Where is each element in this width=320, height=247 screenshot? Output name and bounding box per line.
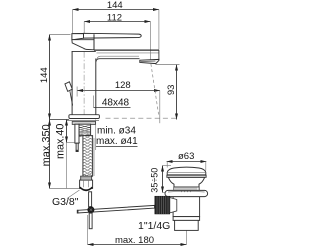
faucet aerator [140,59,159,63]
faucet spout front edge [158,50,160,60]
dimension 35÷50 vertical [150,166,171,193]
svg-text:G3/8": G3/8" [52,196,79,208]
rod left end cap [77,210,79,214]
faucet spout top second line [97,52,159,54]
hose collar [81,176,92,180]
threaded shank [79,124,91,137]
svg-text:max.40: max.40 [54,124,66,159]
dimension 93 vertical [156,65,180,120]
center line (dash-dot) of faucet [83,40,85,120]
svg-text:144: 144 [39,67,50,83]
svg-text:max. 180: max. 180 [115,235,154,246]
svg-text:1"1/4G: 1"1/4G [138,220,170,232]
pull rod under deck [75,124,79,143]
dimension max.40 vertical [54,120,80,189]
extension line from 128 to deck [159,91,161,124]
ball joint [87,206,94,213]
svg-text:35÷50: 35÷50 [150,168,160,193]
dimension max. 180 [88,215,187,246]
drain barrel [173,195,200,216]
cap lip ring [167,175,206,177]
drain ring [173,217,200,221]
dimension 128 horizontal [77,80,160,96]
faucet spout underside light line [97,56,139,59]
handle segment line [93,34,95,50]
drain cap dome [167,167,206,175]
bell neck [168,177,204,187]
faucet body right edge [95,59,97,115]
hose nut G3/8 [80,180,93,190]
faucet lever handle [84,33,142,38]
svg-text:128: 128 [115,80,131,91]
svg-text:max. ø41: max. ø41 [96,136,138,147]
faucet spout top [94,49,159,51]
faucet body top edge [72,50,96,52]
faucet handle base [72,40,94,50]
svg-text:144: 144 [107,0,123,11]
svg-text:48x48: 48x48 [102,98,130,109]
vertical rod below ball [89,213,92,229]
deck dashed line right of faucet [106,117,177,119]
faucet spout underside [96,59,140,62]
pull-rod knob at back [65,82,72,92]
knurled ring [174,187,199,190]
svg-text:ø63: ø63 [178,151,194,162]
drain tailpiece [175,220,199,230]
dimension ø63 [167,151,207,170]
deck line under plate [67,120,99,122]
base plate [69,115,100,119]
pull rod thin end [76,143,78,151]
svg-text:min. ø34: min. ø34 [97,125,136,136]
dimension max.350 vertical [41,120,80,189]
washer under deck [72,121,95,124]
cap edge line [167,171,205,173]
pull-rod wire along body [70,91,73,105]
label max. ø41 with underline [96,120,138,151]
drain flange [165,190,208,196]
vertical rod above ball [89,192,92,207]
dashed water stream line [151,64,159,115]
flexible hose braided [83,123,93,179]
dimension 144 vertical [39,35,71,120]
label 48x48 with leader [94,96,131,109]
svg-text:93: 93 [166,85,177,96]
svg-text:112: 112 [107,12,122,23]
second hose edge line [93,138,95,176]
dimension 112 horizontal [84,12,150,61]
dimension 144 horizontal [73,0,159,50]
horizontal linkage rod [78,205,155,213]
label G3/8" with leader [52,190,80,208]
svg-text:max.350: max.350 [41,124,53,166]
knurled rod connector [155,196,177,214]
aerator inner line [141,60,156,63]
lever grip block [72,34,84,40]
faucet body left edge [71,51,73,114]
